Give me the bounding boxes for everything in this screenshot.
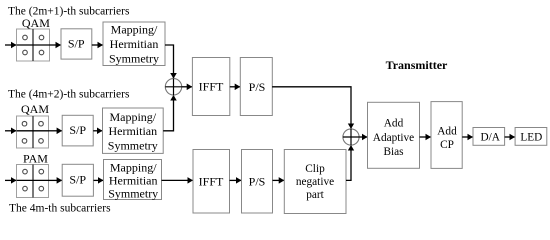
QAM constellation box row 1 [17,29,50,61]
svg-text:CP: CP [440,139,454,151]
PAM constellation box row 3 [17,165,49,198]
svg-text:Mapping/: Mapping/ [111,22,158,36]
svg-text:Symmetry: Symmetry [109,51,159,65]
block P/S (bottom) [242,150,273,214]
wire: Mapping3 to IFFT2 [162,179,193,181]
svg-text:The (4m+2)-th subcarriers: The (4m+2)-th subcarriers [8,89,130,101]
svg-text:Symmetry: Symmetry [108,186,158,200]
wire: input arrow row 3 [5,179,16,181]
wire: Add CP to D/A [462,136,473,138]
svg-text:P/S: P/S [249,175,266,189]
block S/P (row 1) [61,29,92,59]
svg-text:Clip: Clip [305,163,325,175]
wire: IFFT2 to P/S2 [230,179,242,181]
svg-text:Hermitian: Hermitian [108,124,157,138]
svg-text:PAM: PAM [23,152,48,166]
wire: Mapping2 to adder1 (right then up) [163,95,173,131]
svg-text:Hermitian: Hermitian [110,37,159,51]
svg-text:Add: Add [384,118,404,130]
wire: Mapping1 to adder1 (right then down) [165,45,174,78]
svg-text:Adaptive: Adaptive [373,132,414,144]
wire: P/S1 to adder2 (right then down) [272,87,351,129]
block Mapping/Hermitian Symmetry (row 2) [103,108,164,153]
wire: P/S2 to Clip [273,179,285,181]
wire: D/A to LED [505,136,515,138]
svg-text:S/P: S/P [69,123,86,137]
wire: adder1 to IFFT1 [182,86,192,88]
block LED [515,128,547,146]
svg-text:Symmetry: Symmetry [108,138,158,152]
svg-text:Mapping/: Mapping/ [110,161,157,175]
svg-text:Bias: Bias [383,146,403,158]
block Clip negative part [284,150,346,214]
adder (sum) 2 [343,129,359,145]
svg-text:Transmitter: Transmitter [386,58,448,72]
block S/P (row 3) [62,164,93,196]
QAM constellation box row 2 [17,116,49,148]
svg-text:negative: negative [296,176,334,188]
block Add Adaptive Bias [368,102,420,168]
wire: adder2 to Add Adaptive Bias [359,136,367,138]
wire: QAM1 to S/P1 [50,44,61,46]
svg-text:IFFT: IFFT [199,175,224,189]
svg-text:IFFT: IFFT [199,80,224,94]
svg-text:S/P: S/P [69,173,86,187]
block Mapping/Hermitian Symmetry (row 1) [103,22,165,66]
wire: input arrow row 2 [5,130,16,132]
block IFFT (bottom) [193,150,230,214]
block Add CP [431,102,462,169]
svg-text:The 4m-th subcarriers: The 4m-th subcarriers [9,203,111,215]
svg-text:P/S: P/S [249,80,266,94]
svg-text:QAM: QAM [21,102,49,116]
wire: input arrow row 1 [5,44,16,46]
block P/S (top) [240,58,272,116]
wire: Clip to adder2 (right then up) [346,145,351,180]
svg-text:S/P: S/P [68,37,85,51]
wire: S/P2 to Mapping2 [93,130,102,132]
svg-text:D/A: D/A [480,131,500,143]
block IFFT (top) [192,58,229,116]
wire: Add Adaptive Bias to Add CP [420,136,431,138]
svg-text:QAM: QAM [22,16,50,30]
wire: S/P3 to Mapping3 [94,179,104,181]
wire: S/P1 to Mapping1 [92,44,103,46]
wire: QAM2 to S/P2 [49,130,63,132]
svg-text:LED: LED [520,131,542,143]
svg-text:Hermitian: Hermitian [109,174,158,188]
wire: PAM to S/P3 [49,179,63,181]
block D/A [473,128,505,146]
svg-text:Mapping/: Mapping/ [109,110,156,124]
adder (sum) 1 [165,79,181,95]
svg-text:part: part [306,189,324,201]
block Mapping/Hermitian Symmetry (row 3) [104,160,162,201]
block S/P (row 2) [62,115,93,146]
svg-text:Add: Add [437,125,457,137]
wire: IFFT1 to P/S1 [230,86,240,88]
